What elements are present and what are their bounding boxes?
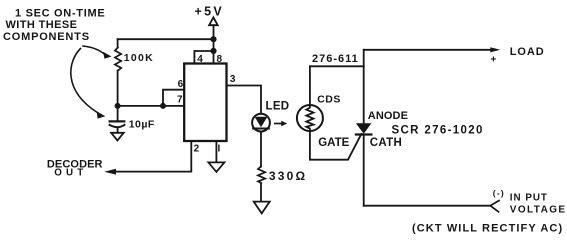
node junction loop top	[210, 48, 216, 54]
+5V supply arrow	[209, 17, 218, 25]
wire LED to 330 ohm resistor	[260, 132, 262, 167]
ground below capacitor	[111, 133, 124, 141]
wire CDS to SCR gate	[310, 131, 362, 160]
svg-text:LED: LED	[266, 100, 290, 112]
svg-text:+: +	[491, 55, 497, 66]
SCR 276-1020	[356, 50, 372, 206]
wire junction to pin7 loop	[118, 105, 163, 107]
svg-text:330Ω: 330Ω	[269, 169, 307, 183]
wire 276-611 underline bracket	[310, 65, 364, 67]
light arrow LED to CDS	[275, 121, 287, 126]
svg-text:CATH: CATH	[370, 137, 402, 149]
wire cathode rail to input voltage	[364, 205, 491, 207]
svg-text:3: 3	[230, 74, 236, 85]
svg-text:4: 4	[197, 54, 203, 65]
svg-text:IN PUT: IN PUT	[510, 192, 548, 203]
annotation arrow to resistor	[83, 46, 112, 59]
svg-text:7: 7	[177, 94, 183, 105]
svg-text:I: I	[218, 143, 221, 154]
arrowhead decoder out	[104, 169, 116, 175]
resistor 330 ohm	[258, 167, 265, 202]
svg-text:CDS: CDS	[317, 94, 341, 106]
svg-text:10µF: 10µF	[129, 118, 155, 130]
wire +5V down	[213, 25, 215, 51]
svg-text:VOLTAGE: VOLTAGE	[510, 205, 567, 216]
svg-text:2: 2	[194, 144, 200, 155]
svg-text:1 SEC ON-TIME: 1 SEC ON-TIME	[15, 8, 105, 20]
svg-text:ANODE: ANODE	[368, 110, 408, 122]
wire +5V rail to resistor top	[118, 38, 214, 40]
ground below 330 ohm	[254, 202, 270, 214]
arrowhead load	[490, 47, 500, 52]
LED	[252, 114, 270, 132]
node junction at +5V rail	[210, 36, 216, 42]
svg-text:COMPONENTS: COMPONENTS	[3, 31, 90, 43]
svg-text:SCR 276-1020: SCR 276-1020	[392, 124, 484, 136]
resistor 100K	[115, 39, 121, 106]
wire pin 2 to decoder out	[113, 141, 191, 172]
annotation arrow to capacitor	[71, 49, 106, 119]
svg-text:6: 6	[178, 79, 184, 90]
wire anode rail to load	[364, 49, 491, 51]
node junction pin6/7	[160, 103, 166, 109]
node junction resistor/capacitor	[115, 103, 121, 109]
wire pin4/pin8 loop to +5V	[194, 51, 213, 64]
svg-text:(CKT WILL RECTIFY AC): (CKT WILL RECTIFY AC)	[412, 223, 563, 235]
wire pin 1 to ground	[215, 141, 217, 162]
svg-text:GATE: GATE	[318, 137, 349, 149]
svg-text:100K: 100K	[124, 52, 154, 64]
capacitor 10uF	[110, 106, 125, 133]
wire to CDS top	[309, 66, 311, 105]
svg-text:LOAD: LOAD	[510, 46, 545, 58]
svg-text:OUT: OUT	[54, 168, 87, 179]
photocell CDS	[297, 105, 323, 131]
wire pin 6 loop	[163, 90, 184, 106]
svg-text:(-): (-)	[493, 188, 505, 198]
ground below pin 1	[208, 162, 224, 172]
IC timer U1 (555)	[184, 64, 226, 142]
wire pin 3 to LED	[227, 86, 262, 114]
svg-text:WITH THESE: WITH THESE	[6, 19, 78, 31]
svg-text:8: 8	[217, 54, 223, 65]
svg-text:276-611: 276-611	[312, 53, 359, 65]
wire pin 7	[163, 105, 184, 107]
input voltage open arrow	[490, 201, 499, 212]
svg-text:+5V: +5V	[195, 4, 225, 18]
